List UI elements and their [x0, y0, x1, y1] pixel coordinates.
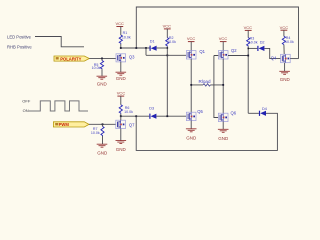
resistor R5 pulldown [92, 58, 104, 76]
wire top loop VCC rail [136, 7, 298, 59]
svg-text:POLARITY: POLARITY [60, 56, 81, 61]
svg-text:Q5: Q5 [197, 109, 203, 114]
svg-text:Q2: Q2 [231, 48, 237, 53]
signal waveform ON label [23, 108, 29, 113]
resistor R4 [282, 30, 294, 54]
ground GND R5 [97, 76, 108, 86]
wire R3 to D2 [248, 47, 257, 49]
svg-text:Q6: Q6 [231, 111, 237, 116]
node RHB Positive label [7, 45, 32, 50]
svg-text:VCC: VCC [115, 21, 124, 26]
ground GND Q7 [116, 141, 127, 153]
ground GND Q6 [218, 129, 229, 141]
power VCC above R6 [117, 91, 126, 96]
wire Rload row [191, 84, 223, 86]
node junction R2 drop / D3 row [166, 115, 168, 117]
ground GND Q4 [279, 71, 290, 82]
transistor Q1 [186, 49, 205, 59]
node junction R2/gate row [166, 54, 168, 56]
resistor R1 pullup [119, 27, 131, 49]
svg-text:GND: GND [218, 136, 229, 141]
resistor R2 [166, 29, 176, 116]
svg-text:VCC: VCC [244, 25, 253, 30]
svg-text:10.0k: 10.0k [92, 66, 101, 70]
wire Q4 source to ground [284, 63, 286, 72]
svg-text:VCC: VCC [187, 36, 196, 41]
svg-text:D1: D1 [150, 39, 155, 43]
ground GND R7 [97, 144, 108, 155]
svg-text:OFF: OFF [22, 98, 31, 103]
resistor R6 [119, 96, 133, 116]
svg-text:10.0k: 10.0k [122, 35, 131, 39]
svg-text:RHB Positive: RHB Positive [7, 45, 32, 50]
diode D4 [259, 107, 267, 116]
svg-text:10.0k: 10.0k [285, 40, 294, 44]
wire Q7 source to ground [120, 129, 122, 141]
svg-text:D2: D2 [260, 40, 265, 44]
node junction Rload left [190, 84, 192, 86]
power VCC above Q2 [219, 36, 228, 50]
node junction R3/D2 [248, 48, 250, 50]
wire Q3 source to ground [120, 62, 122, 72]
node junction Rload right [222, 84, 224, 86]
svg-text:ON: ON [23, 108, 29, 113]
node junction top loop / node A [135, 47, 137, 49]
wire jog node A down to gate row [146, 48, 186, 55]
wire POLARITY to Q3 gate [89, 57, 116, 59]
wire LED Positive to net [35, 37, 84, 47]
wire Q7 drain [120, 116, 122, 120]
wire PWM to Q7 gate [89, 123, 116, 125]
svg-text:Q7: Q7 [129, 123, 135, 128]
svg-text:VCC: VCC [280, 25, 289, 30]
wire Q6 source to ground [222, 122, 224, 130]
wire node A row [121, 47, 150, 49]
wire D4 row from R3 drop [248, 112, 259, 114]
power VCC above R4 [280, 25, 289, 30]
svg-text:10.0k: 10.0k [91, 131, 100, 135]
wire gate drop to Q6 [214, 56, 219, 118]
node junction R3/Q2 gate row [247, 55, 249, 57]
wire D3 anode to Q5 gate [156, 115, 186, 117]
transistor Q2 [218, 48, 237, 59]
wire Q5 source to ground [190, 121, 192, 129]
svg-text:Q4: Q4 [271, 55, 277, 60]
node junction bottom rail T [135, 115, 137, 117]
diode D1 [150, 39, 157, 51]
svg-text:PWM: PWM [59, 122, 70, 127]
node junction R6/Q7 drain [120, 115, 122, 117]
node junction D1 anode / R2 [167, 47, 169, 49]
wire node B row bottom [121, 115, 150, 117]
power VCC above R3 [244, 25, 253, 30]
svg-text:GND: GND [116, 76, 127, 81]
node junction PWM/R7 [102, 123, 104, 125]
svg-text:D4: D4 [262, 107, 267, 111]
diode D3 [149, 107, 156, 119]
transistor Q5 [186, 109, 203, 121]
svg-text:10.0k: 10.0k [167, 40, 176, 44]
node junction POLARITY/R5 [101, 58, 103, 60]
node junction jog T [145, 47, 147, 49]
node LED Positive label [7, 34, 32, 39]
wire Q4 right side to top loop [290, 58, 298, 60]
svg-text:VCC: VCC [117, 91, 126, 96]
power VCC above R1 [115, 21, 124, 26]
node junction R1/Q3 drain [120, 47, 122, 49]
diode D2 [257, 40, 264, 51]
signal waveform OFF label [22, 98, 31, 103]
ground GND Q3 [116, 72, 127, 81]
PWM input flag [53, 122, 89, 127]
svg-text:GND: GND [116, 147, 127, 152]
svg-text:GND: GND [280, 77, 291, 82]
transistor Q3 [116, 54, 135, 62]
svg-text:Q1: Q1 [199, 49, 205, 54]
wire D1 anode to R2 stem [157, 47, 168, 49]
POLARITY input flag [54, 56, 89, 61]
power VCC above Q1 [187, 36, 196, 50]
resistor Rload [199, 79, 211, 86]
svg-text:VCC: VCC [219, 36, 228, 41]
svg-text:D3: D3 [149, 107, 154, 111]
svg-text:10.0k: 10.0k [249, 41, 258, 45]
svg-text:GND: GND [97, 150, 108, 155]
svg-text:Rload: Rload [199, 79, 211, 84]
svg-text:Q3: Q3 [129, 55, 135, 60]
resistor R7 pulldown [91, 124, 104, 144]
wire Q2 drain down right leg [222, 59, 224, 113]
signal PWM square waveform [29, 101, 88, 111]
transistor Q4 [271, 54, 290, 62]
wire D2 anode jog to Q4 gate [264, 48, 280, 58]
wire D4 anode bottom rail [136, 113, 277, 150]
svg-text:GND: GND [186, 136, 197, 141]
power VCC above R2 [163, 24, 172, 29]
transistor Q6 [218, 111, 236, 122]
ground GND Q5 [186, 129, 197, 141]
resistor R3 [247, 30, 258, 113]
wire Q1 drain down left leg [190, 59, 192, 112]
wire Q2 gate row to R3 [214, 55, 248, 57]
svg-text:VCC: VCC [163, 24, 172, 29]
svg-text:GND: GND [97, 82, 108, 87]
svg-text:LED Positive: LED Positive [7, 34, 32, 39]
transistor Q7 [116, 120, 135, 128]
svg-text:10.0k: 10.0k [124, 110, 133, 114]
